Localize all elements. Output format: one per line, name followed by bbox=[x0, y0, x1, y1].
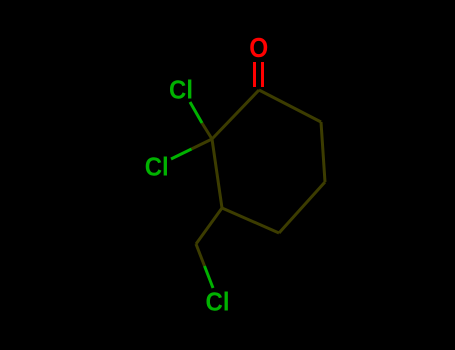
bond C2-Cl(top): carbon half bbox=[202, 123, 212, 139]
ring bond C2-C3 bbox=[212, 139, 222, 208]
svg-text:Cl: Cl bbox=[145, 152, 169, 182]
ring bond C1-C2 bbox=[212, 90, 259, 139]
bond CH2-Cl(bottom): carbon half bbox=[196, 244, 205, 266]
bond CH2-Cl(bottom): Cl half (green) bbox=[205, 266, 214, 288]
C=O double bond (red) bbox=[253, 62, 256, 87]
bond C2-Cl(mid): Cl half (green) bbox=[171, 149, 192, 159]
bond C2-Cl(mid): carbon half bbox=[192, 139, 213, 149]
ring bond C6-C1 bbox=[259, 90, 321, 122]
bond C2-Cl(top): Cl half (green) bbox=[190, 102, 202, 123]
bond C3-CH2 bbox=[196, 208, 222, 244]
svg-text:Cl: Cl bbox=[206, 287, 230, 317]
ring bond C5-C6 bbox=[321, 122, 325, 182]
svg-text:O: O bbox=[249, 32, 268, 63]
svg-text:Cl: Cl bbox=[169, 75, 193, 105]
ring bond C3-C4 bbox=[222, 208, 279, 233]
ring bond C4-C5 bbox=[279, 182, 325, 233]
